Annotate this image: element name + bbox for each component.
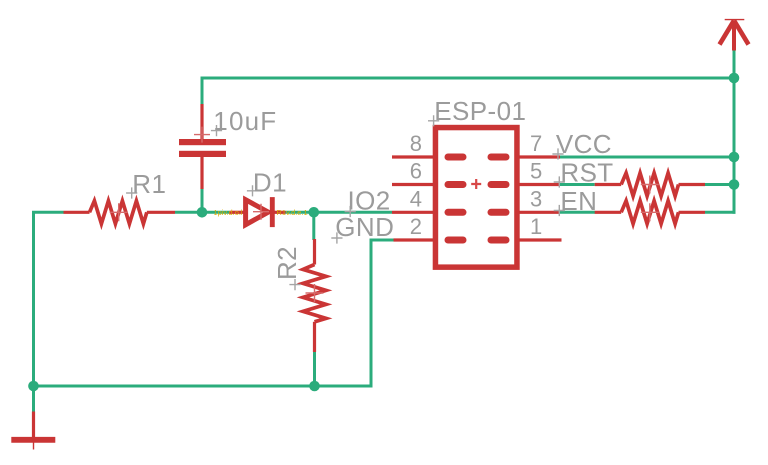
svg-text:5: 5 [530, 159, 542, 184]
svg-text:R1v.d.e.1: R1v.d.e.1 [277, 208, 308, 217]
svg-text:R2: R2 [272, 246, 302, 280]
svg-text:D1: D1 [253, 168, 287, 198]
svg-text:7: 7 [530, 131, 542, 156]
svg-text:3: 3 [530, 186, 542, 211]
svg-text:4: 4 [410, 186, 422, 211]
svg-text:1: 1 [530, 214, 542, 239]
svg-text:GND: GND [335, 212, 394, 242]
svg-text:6: 6 [410, 159, 422, 184]
svg-text:2: 2 [410, 214, 422, 239]
svg-text:IO2: IO2 [348, 185, 391, 215]
svg-text:ESP-01: ESP-01 [434, 96, 526, 126]
svg-text:8: 8 [410, 131, 422, 156]
svg-text:1piv.d.o.l: 1piv.d.o.l [214, 208, 243, 217]
svg-text:VCC: VCC [556, 129, 612, 159]
svg-text:10uF: 10uF [213, 106, 277, 136]
svg-text:RST: RST [560, 157, 613, 187]
svg-text:EN: EN [560, 186, 597, 216]
svg-text:R1: R1 [132, 169, 166, 199]
